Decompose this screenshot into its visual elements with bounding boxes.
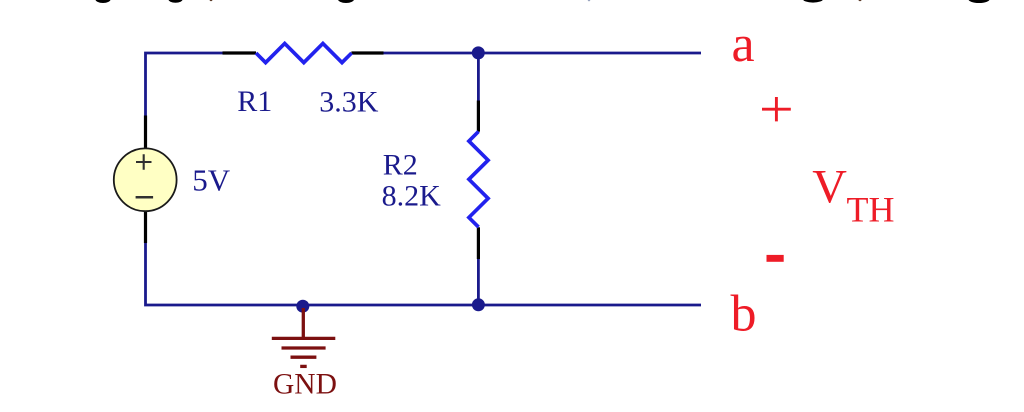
voltage source V1 minus marking [136, 196, 154, 199]
svg-text:3.3K: 3.3K [319, 86, 379, 119]
svg-text:5V: 5V [192, 163, 231, 198]
cut-off heading text descender fragment 8 [968, 0, 990, 3]
svg-text:a: a [732, 16, 755, 73]
wire: bottom-left loop (left vertical lower + bottom wire to terminal b) [146, 243, 702, 306]
cut-off heading text descender fragment 2 [168, 0, 182, 3]
ground symbol bar 2 [282, 346, 326, 349]
svg-text:R1: R1 [237, 85, 272, 118]
svg-text:b: b [731, 286, 757, 343]
wire: R2 bottom vertical [477, 259, 480, 306]
node junction dot bottom right (b net) [472, 298, 485, 311]
cut-off heading text descender fragment 6 [803, 0, 823, 3]
voltage source V1 bottom pin [144, 211, 147, 243]
voltage source V1 circle body [114, 148, 177, 211]
resistor R1 zigzag body [256, 44, 352, 63]
ground symbol stem [302, 308, 305, 338]
polarity minus sign [767, 255, 784, 262]
resistor R1 left pin [223, 51, 257, 54]
cut-off heading text comma fragment 7 [858, 0, 861, 1]
voltage source V1 top pin [144, 116, 147, 150]
svg-text:V: V [812, 161, 847, 214]
ground symbol bar 3 [291, 356, 317, 359]
cut-off heading text descender fragment 4 [338, 0, 354, 3]
cut-off heading text comma fragment 3 [209, 0, 212, 1]
polarity plus sign [762, 97, 791, 121]
resistor R2 zigzag body [469, 132, 488, 228]
svg-text:GND: GND [273, 369, 337, 401]
node junction dot top (a net) [472, 46, 485, 59]
wire: R2 top vertical [477, 53, 480, 101]
node junction dot bottom left (gnd net) [296, 300, 309, 313]
svg-text:TH: TH [847, 190, 895, 230]
wire: top-left loop (left vertical upper + top wire to R1) [146, 53, 224, 116]
cut-off heading text faint fragment 5 [588, 0, 591, 1]
svg-text:8.2K: 8.2K [382, 180, 442, 213]
voltage source V1 plus marking [136, 154, 152, 169]
resistor R2 bottom pin [477, 227, 480, 259]
ground symbol bar 1 [272, 337, 336, 340]
resistor R1 right pin [351, 51, 383, 54]
ground symbol bar 4 [300, 365, 307, 368]
resistor R2 top pin [477, 101, 480, 132]
cut-off heading text descender fragment 1 [95, 0, 110, 3]
svg-text:R2: R2 [383, 149, 418, 182]
wire: top wire from R1 to terminal a [383, 52, 701, 55]
